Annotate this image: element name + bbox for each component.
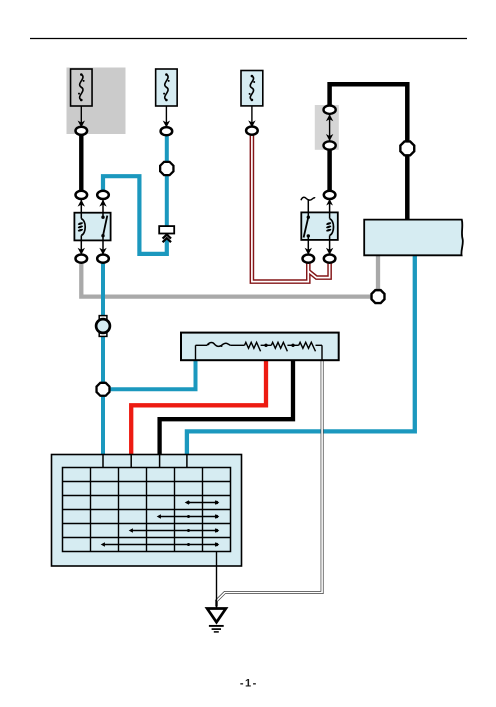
svg-text:- 1 -: - 1 - <box>240 678 257 690</box>
